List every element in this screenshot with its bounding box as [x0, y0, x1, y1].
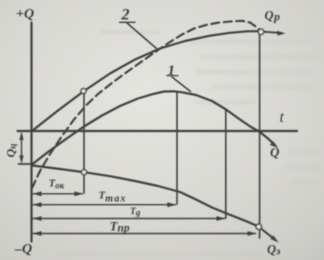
lower heat-loss curve descending to Qe [33, 166, 259, 227]
arrow continuing past Qp point [264, 32, 282, 33]
node circle at Qp [258, 29, 264, 35]
vertical guide at Tok [83, 94, 85, 193]
vertical guide at Tmax [176, 93, 178, 205]
node circle on rising curve at Tok [81, 29, 264, 230]
underline of label 1 [167, 75, 178, 77]
leader line of label 1 [172, 77, 191, 92]
faint bleed-through print [60, 30, 320, 256]
arrowhead at Qp arrow end [277, 31, 286, 36]
Q axis (vertical) [30, 23, 32, 242]
curve 2 (dashed) [32, 21, 260, 188]
label Qc (rotated) [4, 144, 19, 158]
dimension arrow Tok [33, 193, 83, 195]
leader line of label 2 [127, 23, 157, 49]
node circle at Qe [256, 224, 262, 230]
vertical guide at Tpr [259, 35, 261, 239]
t axis (horizontal) [18, 130, 298, 132]
vertical guide at tg [225, 110, 227, 218]
underline of label 2 [120, 21, 136, 23]
node circle on lower curve at Tok [81, 170, 86, 175]
arrowhead at curve 1 end (Q) [270, 141, 278, 148]
curve 1 (parabolic net-heat curve) [32, 91, 275, 164]
tick at Qc level [19, 163, 33, 165]
dimension arrow Tpr [33, 233, 256, 235]
Qc vertical double arrow [21, 134, 23, 161]
arrowhead at Qe end [271, 235, 279, 242]
dimension arrow Tmax [33, 204, 176, 206]
dimension arrow tg [33, 218, 225, 220]
lower curve tail past circle [262, 229, 275, 239]
heat-release curve rising to Qp (solid) [32, 31, 258, 131]
